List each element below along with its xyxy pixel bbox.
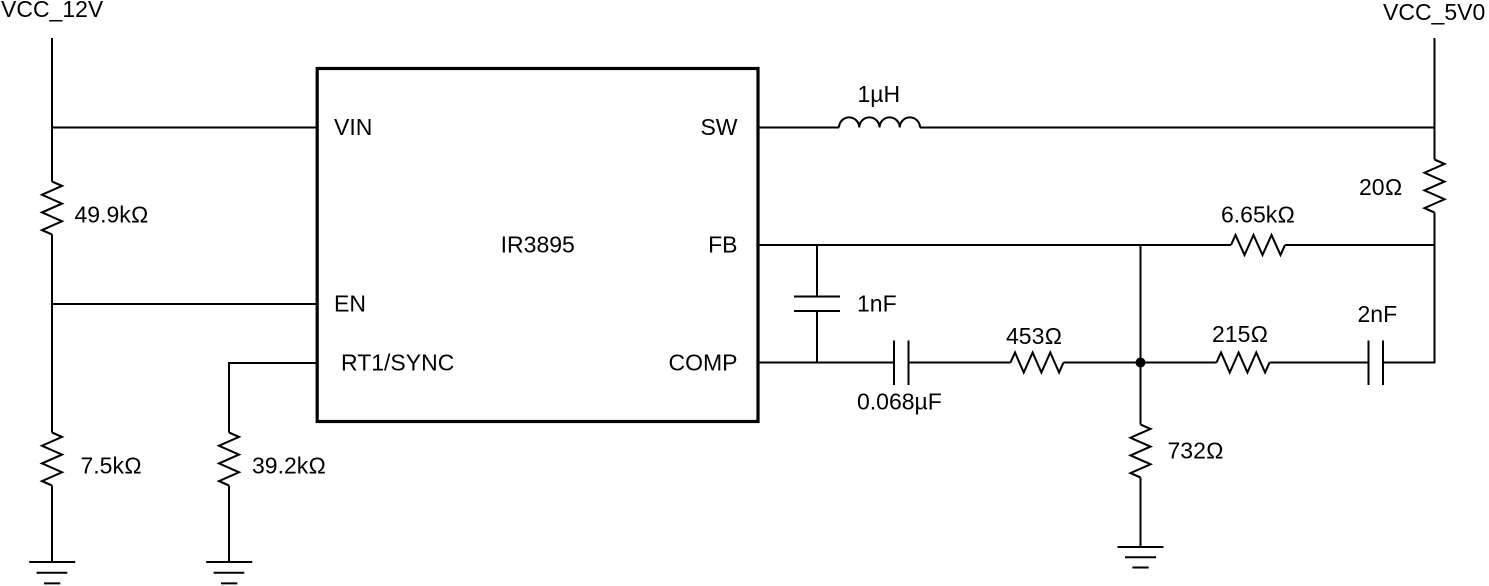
wire [1140,245,1142,425]
capacitor 1nF [794,297,840,312]
resistor 215 [1217,353,1270,373]
wire COMP [758,362,894,364]
node VCC_5V0 [1383,0,1485,25]
wire [1383,213,1435,363]
label IR3895 [501,232,575,258]
svg-text:IR3895: IR3895 [501,232,575,258]
svg-text:1µH: 1µH [858,81,901,107]
wire [816,311,818,363]
pin label FB [708,232,737,258]
wire [920,127,1435,129]
label 732 [1168,438,1224,464]
ground [206,562,252,583]
node COMP-network junction (dot) [1136,358,1146,368]
wire EN [52,303,317,305]
label 20 [1359,174,1402,200]
capacitor 0.068uF [894,341,909,386]
svg-text:FB: FB [708,232,737,258]
svg-text:1nF: 1nF [857,291,897,317]
svg-text:VCC_12V: VCC_12V [1,0,104,22]
label 0.068uF [857,389,942,415]
node VCC_12V [1,0,104,22]
ground [29,562,75,583]
svg-text:215Ω: 215Ω [1212,321,1268,347]
resistor 453 [1011,353,1064,373]
pin label COMP [669,350,738,376]
pin label EN [334,291,366,317]
resistor 7.5k [42,433,62,486]
label 215 [1212,321,1268,347]
svg-text:VCC_5V0: VCC_5V0 [1383,0,1485,25]
svg-text:COMP: COMP [669,350,738,376]
svg-text:SW: SW [700,114,737,140]
svg-text:39.2kΩ: 39.2kΩ [252,453,326,479]
resistor 39.2k [219,433,239,486]
pin label RT1/SYNC [341,350,454,376]
wire [816,245,818,297]
svg-text:RT1/SYNC: RT1/SYNC [341,350,454,376]
svg-text:7.5kΩ: 7.5kΩ [81,453,142,479]
svg-text:EN: EN [334,291,366,317]
wire FB [758,244,1231,246]
IC U1 IR3895 body [317,69,758,422]
ground [1118,547,1164,568]
wire [1270,362,1369,364]
svg-text:0.068µF: 0.068µF [857,389,942,415]
label 1uH [858,81,901,107]
label 39.2k [252,453,326,479]
wire SW [758,127,839,129]
wire [1285,244,1435,246]
svg-text:VIN: VIN [334,114,372,140]
capacitor 2nF [1369,341,1384,386]
svg-text:49.9kΩ: 49.9kΩ [75,202,149,228]
wire VIN [52,127,317,129]
label 6.65k [1221,202,1295,228]
wire [51,38,53,182]
resistor 732 [1131,425,1151,478]
wire [1064,362,1217,364]
pin label VIN [334,114,372,140]
svg-text:732Ω: 732Ω [1168,438,1224,464]
wire RT1/SYNC [229,363,317,433]
svg-text:2nF: 2nF [1358,301,1398,327]
label 453 [1006,323,1062,349]
wire [1434,38,1436,160]
resistor 6.65k [1231,235,1285,255]
svg-text:6.65kΩ: 6.65kΩ [1221,202,1295,228]
pin label SW [700,114,737,140]
label 7.5k [81,453,142,479]
label 1nF [857,291,897,317]
wire [51,486,53,563]
label 2nF [1358,301,1398,327]
resistor 20 [1425,160,1445,213]
inductor 1uH [839,117,920,127]
svg-text:20Ω: 20Ω [1359,174,1402,200]
wire [228,486,230,563]
resistor 49.9k [42,182,62,235]
wire [1140,478,1142,548]
svg-text:453Ω: 453Ω [1006,323,1062,349]
label 49.9k [75,202,149,228]
wire [51,235,53,433]
wire [909,362,1011,364]
